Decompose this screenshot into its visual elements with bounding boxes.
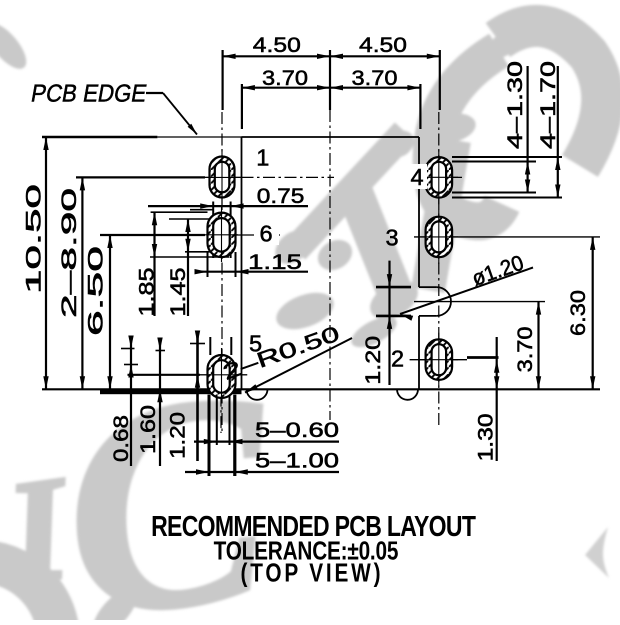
svg-text:3: 3 [385, 225, 398, 251]
svg-text:2–8.90: 2–8.90 [57, 188, 81, 318]
svg-text:0.75: 0.75 [257, 184, 305, 208]
svg-text:6.50: 6.50 [83, 246, 107, 336]
svg-text:1.30: 1.30 [474, 413, 498, 461]
svg-text:PCB EDGE: PCB EDGE [29, 81, 149, 108]
svg-text:5–1.00: 5–1.00 [255, 448, 339, 472]
svg-text:(TOP VIEW): (TOP VIEW) [241, 558, 381, 587]
svg-text:2: 2 [391, 346, 404, 372]
svg-text:4–1.70: 4–1.70 [536, 61, 560, 149]
svg-text:6: 6 [259, 221, 272, 247]
svg-text:5–0.60: 5–0.60 [255, 418, 339, 442]
svg-text:4–1.30: 4–1.30 [503, 61, 527, 149]
svg-text:1: 1 [256, 145, 269, 171]
svg-text:1.85: 1.85 [134, 267, 158, 316]
svg-text:4: 4 [410, 164, 423, 190]
svg-text:3.70: 3.70 [513, 326, 537, 372]
svg-text:3.70: 3.70 [262, 66, 308, 90]
svg-text:4.50: 4.50 [253, 33, 301, 57]
svg-text:1.20: 1.20 [361, 336, 385, 385]
svg-text:6.30: 6.30 [566, 290, 590, 336]
svg-text:5: 5 [249, 331, 262, 357]
svg-text:3.70: 3.70 [352, 66, 398, 90]
svg-text:1.45: 1.45 [166, 267, 190, 316]
svg-text:1.20: 1.20 [165, 412, 189, 459]
svg-text:4.50: 4.50 [359, 33, 407, 57]
svg-text:1.60: 1.60 [136, 405, 160, 454]
svg-text:10.50: 10.50 [21, 184, 45, 294]
svg-text:0.68: 0.68 [109, 415, 133, 462]
svg-text:1.15: 1.15 [248, 250, 302, 274]
